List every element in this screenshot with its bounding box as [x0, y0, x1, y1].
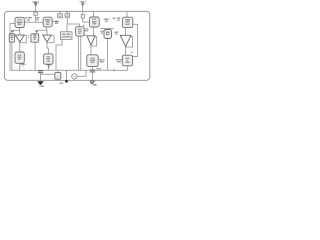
svg-text:REF: REF — [33, 35, 36, 37]
svg-text:REG: REG — [100, 62, 105, 64]
svg-text:VOUT: VOUT — [96, 68, 102, 70]
svg-text:VSS1: VSS1 — [39, 86, 44, 88]
svg-text:GEN: GEN — [92, 24, 97, 26]
svg-text:REG: REG — [90, 62, 95, 64]
svg-text:CONTROL: CONTROL — [61, 36, 72, 38]
svg-text:REF: REF — [10, 35, 13, 37]
svg-text:S1: S1 — [11, 39, 13, 41]
svg-text:3a: 3a — [84, 35, 86, 37]
svg-text:P2: P2 — [66, 11, 68, 13]
svg-text:VDD 2: VDD 2 — [79, 1, 86, 3]
svg-text:ST1: ST1 — [18, 59, 21, 61]
svg-text:GND: GND — [92, 84, 97, 86]
svg-text:1V2: 1V2 — [36, 20, 39, 22]
svg-text:1: 1 — [22, 66, 23, 68]
svg-text:20: 20 — [131, 52, 133, 54]
svg-text:REG: REG — [117, 62, 121, 64]
svg-text:P1: P1 — [59, 11, 61, 13]
svg-text:STN: STN — [46, 61, 50, 63]
svg-text:REG: REG — [125, 62, 130, 64]
svg-text:16: 16 — [83, 25, 85, 27]
svg-text:VSS: VSS — [59, 83, 64, 85]
svg-text:VDD 1: VDD 1 — [32, 1, 39, 3]
